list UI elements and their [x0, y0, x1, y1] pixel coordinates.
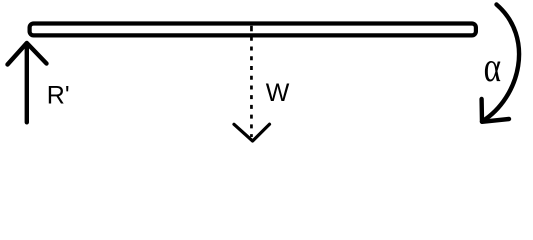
node R arrowhead	[8, 43, 47, 65]
beam	[30, 24, 476, 36]
wire moment arc	[482, 5, 519, 122]
node R arrow shaft	[25, 44, 29, 122]
svg-text:R': R'	[47, 82, 70, 110]
node alpha arrowhead	[482, 99, 509, 122]
svg-text:W: W	[266, 79, 290, 107]
wire dashed line of W	[250, 26, 253, 32]
node W arrowhead	[234, 124, 270, 141]
svg-text:α: α	[484, 45, 501, 91]
